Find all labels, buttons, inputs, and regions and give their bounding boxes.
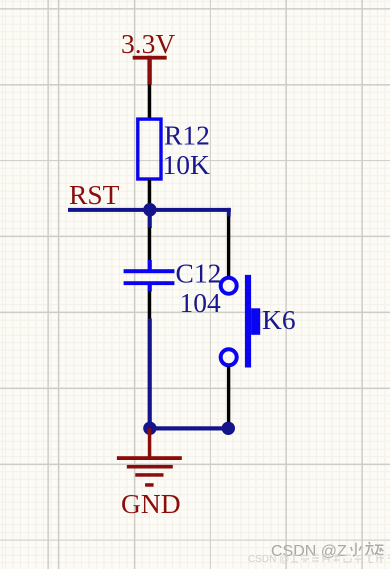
- resistor R12 pin 1: [148, 84, 152, 119]
- push button K6 pin 1: [227, 217, 230, 277]
- junction node RST: [143, 203, 156, 216]
- ground bar 1: [117, 456, 182, 460]
- junction node bottom right: [222, 422, 235, 435]
- svg-text:RST: RST: [69, 179, 120, 210]
- push button K6 actuator knob: [251, 308, 260, 335]
- resistor R12 body: [138, 119, 161, 179]
- wire right branch corner: [227, 208, 231, 217]
- capacitor C12 pin 1: [148, 228, 152, 261]
- svg-text:GND: GND: [121, 488, 181, 519]
- ground bar 4: [145, 483, 154, 487]
- wire bottom horizontal: [148, 426, 229, 430]
- wire junction to capacitor: [148, 210, 152, 228]
- svg-text:10K: 10K: [163, 149, 211, 180]
- push button K6 bottom contact circle: [221, 349, 237, 365]
- svg-text:3.3V: 3.3V: [121, 28, 175, 59]
- svg-text:K6: K6: [262, 304, 296, 335]
- junction node bottom left: [143, 422, 156, 435]
- watermark faint second line: [248, 551, 390, 565]
- resistor R12 pin 2: [148, 180, 152, 205]
- capacitor C12 bottom plate: [124, 281, 175, 285]
- svg-text:C12: C12: [176, 257, 222, 288]
- ground bar 3: [135, 473, 163, 477]
- capacitor C12 top plate: [124, 269, 175, 273]
- svg-text:R12: R12: [164, 120, 210, 151]
- ground stem: [148, 428, 152, 456]
- power port 3.3V bar: [133, 56, 167, 60]
- wire capacitor to bottom junction: [148, 319, 152, 429]
- ground bar 2: [127, 465, 173, 469]
- capacitor C12 top stem: [148, 260, 152, 270]
- svg-text:104: 104: [180, 287, 222, 318]
- capacitor C12 pin 2: [148, 292, 152, 320]
- push button K6 actuator bar: [245, 275, 251, 368]
- capacitor C12 bottom stem: [148, 285, 152, 292]
- push button K6 pin 2: [227, 367, 230, 423]
- wire RST horizontal: [68, 208, 231, 212]
- power port 3.3V stem: [147, 56, 151, 85]
- push button K6 top contact circle: [221, 278, 237, 294]
- watermark CSDN @Z小旋: [271, 538, 385, 561]
